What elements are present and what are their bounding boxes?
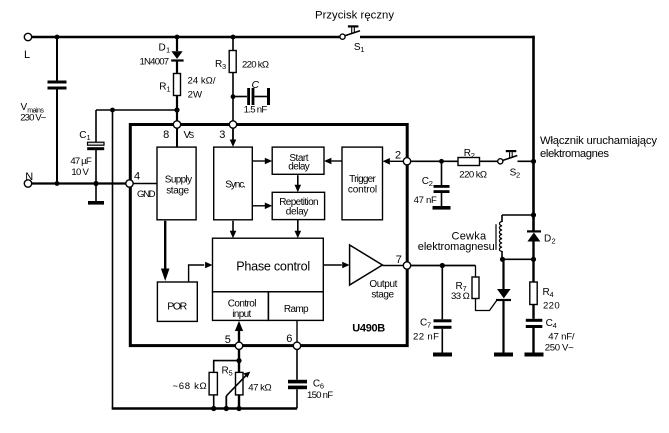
svg-text:D: D xyxy=(159,42,166,53)
svg-text:D: D xyxy=(544,233,551,244)
svg-text:elektromagnesu: elektromagnesu xyxy=(418,241,495,253)
svg-text:stage: stage xyxy=(166,185,189,196)
svg-text:47 nF/: 47 nF/ xyxy=(548,332,575,343)
svg-text:delay: delay xyxy=(286,207,309,218)
svg-text:N: N xyxy=(25,171,33,183)
svg-text:R: R xyxy=(159,81,166,92)
svg-text:Supply: Supply xyxy=(165,175,192,186)
svg-text:input: input xyxy=(232,309,251,320)
svg-text:220 kΩ: 220 kΩ xyxy=(242,60,269,71)
svg-text:220: 220 xyxy=(543,301,560,312)
svg-text:4: 4 xyxy=(550,290,554,299)
svg-text:control: control xyxy=(348,184,377,195)
svg-text:2: 2 xyxy=(552,237,556,246)
svg-text:2: 2 xyxy=(516,171,520,180)
svg-text:Phase control: Phase control xyxy=(236,260,310,274)
svg-text:47 µF: 47 µF xyxy=(70,156,91,167)
svg-text:230 V~: 230 V~ xyxy=(20,113,47,124)
svg-text:1N4007: 1N4007 xyxy=(140,57,170,68)
svg-text:2: 2 xyxy=(429,179,433,188)
svg-text:4: 4 xyxy=(134,171,140,183)
svg-text:2: 2 xyxy=(395,149,401,161)
svg-text:elektromagnes: elektromagnes xyxy=(540,148,609,160)
svg-text:33 Ω: 33 Ω xyxy=(451,291,470,302)
svg-text:S: S xyxy=(189,131,194,140)
svg-text:250 V~: 250 V~ xyxy=(545,343,574,354)
svg-text:Przycisk ręczny: Przycisk ręczny xyxy=(315,9,394,21)
svg-text:POR: POR xyxy=(167,300,187,312)
svg-text:7: 7 xyxy=(396,254,402,266)
svg-text:1: 1 xyxy=(167,84,171,93)
svg-text:Sync.: Sync. xyxy=(225,179,246,190)
svg-text:10 V: 10 V xyxy=(71,167,89,178)
svg-text:22 nF: 22 nF xyxy=(413,332,439,343)
svg-text:6: 6 xyxy=(286,333,292,345)
svg-text:1: 1 xyxy=(360,45,364,54)
svg-text:Control: Control xyxy=(228,299,257,310)
svg-text:U490B: U490B xyxy=(352,323,385,335)
svg-text:delay: delay xyxy=(288,161,310,172)
svg-text:GND: GND xyxy=(137,189,156,200)
svg-text:Trigger: Trigger xyxy=(349,174,376,185)
svg-text:L: L xyxy=(24,49,30,61)
svg-text:C: C xyxy=(252,79,260,91)
svg-text:47 nF: 47 nF xyxy=(414,195,437,206)
svg-text:Włącznik uruchamiający: Włącznik uruchamiający xyxy=(540,135,657,147)
svg-text:C: C xyxy=(79,130,86,141)
svg-text:47 kΩ: 47 kΩ xyxy=(248,383,272,394)
svg-text:3: 3 xyxy=(219,129,225,141)
svg-text:2 W: 2 W xyxy=(188,90,203,101)
svg-text:1: 1 xyxy=(166,45,170,54)
svg-text:8: 8 xyxy=(163,129,169,141)
svg-text:150 nF: 150 nF xyxy=(307,390,333,401)
svg-text:1: 1 xyxy=(87,133,91,142)
svg-text:1.5 nF: 1.5 nF xyxy=(244,105,268,116)
svg-text:2: 2 xyxy=(471,151,475,160)
svg-text:5: 5 xyxy=(225,334,231,346)
svg-text:~68 kΩ: ~68 kΩ xyxy=(173,381,207,392)
svg-text:220 kΩ: 220 kΩ xyxy=(459,169,487,180)
svg-text:24 kΩ/: 24 kΩ/ xyxy=(188,76,216,87)
svg-text:3: 3 xyxy=(222,62,226,71)
svg-text:7: 7 xyxy=(427,321,431,330)
svg-text:Output: Output xyxy=(369,279,397,290)
svg-text:Ramp: Ramp xyxy=(284,304,309,315)
svg-text:stage: stage xyxy=(371,290,394,301)
svg-text:4: 4 xyxy=(553,321,557,330)
svg-text:5: 5 xyxy=(229,369,233,378)
